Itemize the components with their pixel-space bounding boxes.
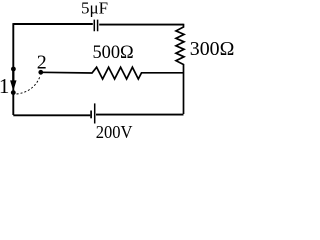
- svg-text:2: 2: [37, 52, 47, 74]
- svg-text:500Ω: 500Ω: [93, 43, 134, 63]
- svg-text:200V: 200V: [96, 122, 133, 141]
- svg-text:5μF: 5μF: [81, 0, 108, 17]
- svg-text:1: 1: [0, 74, 9, 98]
- svg-text:300Ω: 300Ω: [190, 38, 235, 60]
